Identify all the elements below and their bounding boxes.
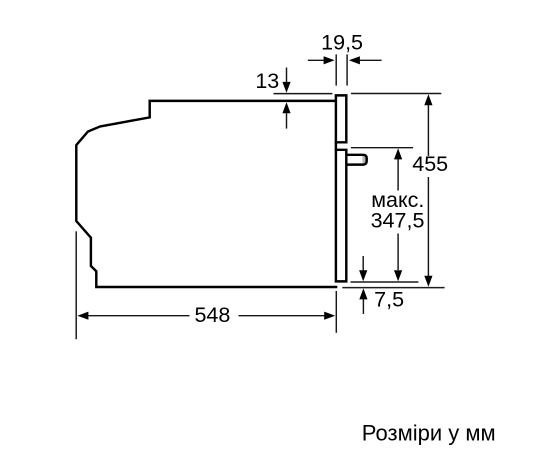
- door upper section: [336, 95, 346, 142]
- svg-text:13: 13: [255, 69, 279, 93]
- door lower section: [336, 150, 346, 282]
- svg-text:455: 455: [412, 152, 448, 176]
- dim 347,5 arrowhead down: [394, 270, 402, 281]
- dim 347,5 line upper segment: [397, 159, 399, 191]
- svg-text:19,5: 19,5: [321, 31, 363, 55]
- dim 13 arrowhead up: [282, 102, 290, 113]
- dim 548 extension line left: [75, 231, 77, 339]
- dim 347,5 line lower segment: [397, 234, 399, 271]
- dim 548 line right segment: [239, 315, 325, 317]
- dim 19,5 arrowhead right-pointing: [324, 56, 335, 64]
- dim 455 top extension line: [351, 93, 441, 95]
- dim 19,5 arrowhead left-pointing: [349, 56, 360, 64]
- dim 455 arrowhead down: [424, 276, 432, 287]
- body bottom reference line: [342, 287, 444, 289]
- dim 13 lower arrow shaft: [286, 113, 288, 129]
- dim 455 line lower segment: [427, 177, 429, 276]
- dim 548 line left segment: [88, 315, 190, 317]
- dim 13 upper arrow shaft: [286, 68, 288, 83]
- dim 19,5 extension line right: [346, 54, 348, 85]
- door handle: [347, 155, 367, 165]
- dim 7,5 lower arrow shaft: [362, 299, 364, 314]
- dim 455 line upper segment: [427, 105, 429, 156]
- dim 548 extension line right: [335, 291, 337, 333]
- dim 13 arrowhead down: [282, 82, 290, 93]
- dim 347,5 arrowhead up: [394, 148, 402, 159]
- dim 19,5 leader right: [360, 59, 382, 61]
- dim 548 arrowhead left-pointing: [77, 312, 88, 320]
- door left edge seam connector: [335, 142, 337, 151]
- svg-text:Розміри у мм: Розміри у мм: [362, 420, 496, 445]
- oven body outline: [76, 101, 337, 287]
- door bottom reference line: [351, 281, 419, 283]
- dim 347,5 top extension line: [351, 147, 413, 149]
- dim 13 extension line: [274, 93, 333, 95]
- svg-text:548: 548: [194, 303, 230, 327]
- door handle shading: [363, 156, 367, 163]
- dim 7,5 arrowhead up: [359, 288, 367, 299]
- svg-text:347,5: 347,5: [371, 208, 425, 232]
- dim 548 arrowhead right-pointing: [324, 312, 335, 320]
- dim 455 arrowhead up: [424, 94, 432, 105]
- dim 7,5 upper arrow shaft: [362, 256, 364, 270]
- svg-text:7,5: 7,5: [374, 287, 404, 311]
- dim 7,5 arrowhead down: [359, 270, 367, 281]
- dim 19,5 extension line left: [335, 54, 337, 85]
- dim 19,5 leader left: [308, 59, 324, 61]
